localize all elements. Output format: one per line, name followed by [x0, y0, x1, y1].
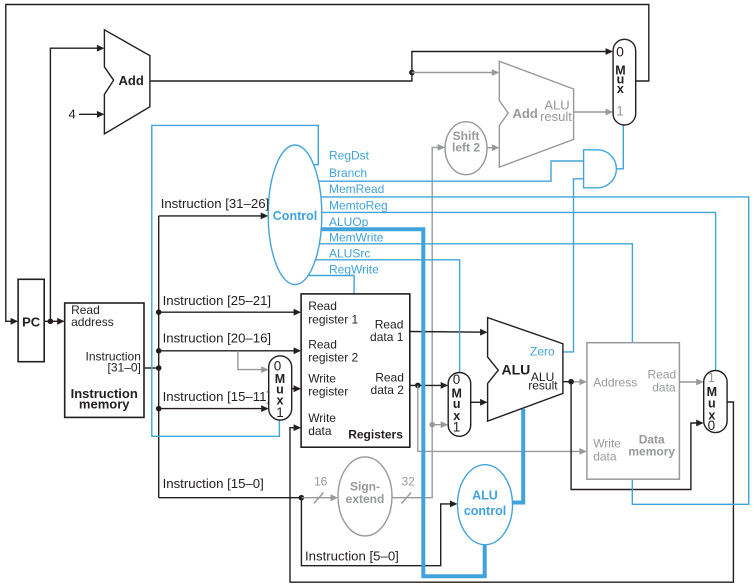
svg-text:data: data [593, 450, 617, 464]
wire Instruction [31-26] to Control [159, 213, 269, 220]
node Read data 2 junction [415, 383, 421, 389]
svg-text:Add: Add [119, 73, 144, 88]
svg-text:MemRead: MemRead [329, 182, 384, 196]
gate AND (branch) [584, 150, 617, 188]
svg-text:memory: memory [628, 445, 675, 459]
wire MemtoReg mux output write-back loop to Registers write data [290, 402, 733, 582]
wire data memory read data to MemtoReg mux input 1 (gray) [679, 379, 703, 386]
svg-text:Instruction [20–16]: Instruction [20–16] [163, 331, 272, 346]
svg-text:data: data [308, 424, 332, 438]
sign extender Sign-extend (gray) [338, 457, 392, 536]
svg-text:extend: extend [346, 492, 385, 506]
node instruction bus junction 25-21 [156, 309, 162, 315]
mux RegDst (write register select) [269, 356, 292, 420]
svg-text:1: 1 [708, 370, 716, 385]
control unit Control oval [268, 145, 322, 285]
svg-text:ALUSrc: ALUSrc [329, 247, 370, 261]
svg-text:data 2: data 2 [371, 383, 405, 397]
svg-text:Read: Read [308, 338, 337, 352]
svg-text:control: control [464, 504, 506, 518]
node PC+4 branch junction [409, 70, 415, 76]
svg-text:0: 0 [453, 372, 461, 387]
node instruction bus output junction [156, 365, 162, 371]
alu ALU main [488, 318, 563, 422]
svg-text:Zero: Zero [530, 344, 555, 358]
wire ALU result to data memory address (gray tip) [563, 379, 587, 386]
mux MemtoReg (write-back select) [704, 370, 727, 433]
svg-text:Instruction [5–0]: Instruction [5–0] [305, 549, 399, 564]
memory Instruction memory [65, 303, 144, 417]
mux ALUSrc [448, 372, 471, 436]
svg-text:Control: Control [273, 209, 317, 223]
svg-text:MemtoReg: MemtoReg [329, 199, 388, 213]
node sign-extend output branch to ALUSrc mux (gray) [429, 422, 435, 428]
wire ALUSrc mux output to ALU input 2 [471, 399, 488, 406]
wire RegDst control signal path to RegDst mux select [152, 125, 318, 436]
adder Add ALU result (branch target, gray) [499, 61, 573, 167]
svg-text:16: 16 [314, 475, 328, 489]
node ALU result junction [568, 379, 574, 385]
wire 32-bit slash mark [402, 493, 412, 504]
svg-text:MemWrite: MemWrite [329, 231, 384, 245]
wire PC to Add top input [50, 45, 104, 322]
svg-text:ALU: ALU [502, 362, 531, 378]
svg-text:Write: Write [593, 437, 621, 451]
wire instruction bus vertical [158, 216, 160, 498]
wire Read data 2 to ALUSrc mux input 0 [410, 382, 448, 389]
svg-text:Registers: Registers [348, 427, 403, 441]
wire PC+4 to branch adder top input (gray) [412, 69, 499, 76]
wire AND gate output to top mux select [616, 125, 623, 169]
svg-text:Instruction [31–26]: Instruction [31–26] [161, 196, 270, 211]
wire Instruction [25-21] to Read register 1 [159, 309, 301, 316]
register PC [18, 279, 44, 361]
wire ALUSrc control signal to ALUSrc mux select [295, 260, 460, 373]
wire ALU result down and around to MemtoReg mux input 0 [571, 382, 704, 490]
svg-text:Branch: Branch [329, 166, 367, 180]
svg-text:1: 1 [276, 405, 284, 420]
wire branch adder output to top mux input 1 [574, 109, 614, 116]
shifter Shift left 2 (gray) [445, 122, 487, 175]
svg-text:result: result [528, 378, 558, 392]
mux PCSrc (top right) [613, 39, 636, 125]
wire sign-extend output to shift left 2 and ALUSrc mux [392, 147, 443, 497]
wire constant 4 to Add bottom input [79, 111, 104, 118]
svg-text:Add: Add [513, 106, 538, 121]
registers Registers file [301, 294, 410, 447]
wire instruction memory output to instruction bus [144, 367, 159, 369]
wire MemRead control signal loop to data memory bottom [295, 197, 749, 504]
wire RegDst mux output to Write register [292, 385, 301, 392]
svg-text:Instruction [25–21]: Instruction [25–21] [163, 293, 272, 308]
wire RegWrite control signal to Registers [295, 276, 354, 294]
svg-text:data 1: data 1 [370, 330, 404, 344]
svg-text:Instruction [15–0]: Instruction [15–0] [163, 476, 264, 491]
wire Read data 1 to ALU input 1 [410, 329, 488, 336]
wire MemWrite control signal to data memory top [295, 244, 632, 343]
svg-text:left 2: left 2 [452, 141, 480, 155]
svg-text:register 2: register 2 [308, 351, 358, 365]
svg-text:register 1: register 1 [308, 312, 358, 326]
wire Zero output of ALU to AND gate [563, 179, 584, 352]
wire Instruction [15-0] to sign extend [159, 497, 302, 499]
wire Instruction [15-0] into sign-extend (gray) [301, 494, 338, 501]
wire ALUOp thick control signal to ALU control [295, 229, 485, 576]
svg-text:Write: Write [308, 411, 336, 425]
svg-text:PC: PC [22, 314, 41, 329]
svg-text:RegWrite: RegWrite [329, 263, 379, 277]
svg-text:x: x [617, 82, 624, 96]
svg-text:ALU: ALU [472, 488, 498, 502]
svg-text:Read: Read [648, 368, 677, 382]
node instruction bus junction 15-11 [156, 406, 162, 412]
svg-text:data: data [652, 381, 676, 395]
svg-text:Instruction [15–11]: Instruction [15–11] [163, 389, 271, 404]
wire PC output to instruction memory read address [44, 318, 64, 325]
wire Add output to top mux input 0 [150, 48, 613, 81]
svg-text:address: address [71, 315, 114, 329]
wire Branch control signal to AND gate [295, 161, 584, 181]
svg-text:RegDst: RegDst [329, 149, 370, 163]
svg-text:register: register [308, 384, 348, 398]
svg-text:4: 4 [69, 106, 76, 121]
wire Read data 2 gray branch to data memory write data [418, 385, 587, 454]
node instruction bus junction 20-16 [156, 348, 162, 354]
wire MemtoReg control signal to MemtoReg mux select [295, 212, 716, 370]
svg-text:Read: Read [308, 299, 337, 313]
svg-text:[31–0]: [31–0] [108, 361, 141, 375]
node PC output junction [48, 319, 54, 325]
wire Instruction [20-16] gray branch to RegDst mux input 0 [238, 351, 269, 373]
svg-text:memory: memory [79, 397, 130, 412]
svg-text:32: 32 [402, 475, 416, 489]
memory Data memory (gray) [587, 343, 680, 480]
svg-text:1: 1 [616, 104, 624, 119]
svg-text:0: 0 [708, 418, 716, 433]
wire sign-extend branch to ALUSrc mux input 1 [432, 421, 448, 428]
control unit ALU control oval [458, 465, 513, 545]
wire shift left 2 input arrowhead [438, 144, 446, 151]
wire Instruction [20-16] to Read register 2 [159, 347, 301, 354]
adder Add (PC+4) [104, 30, 149, 134]
wire 16-bit slash mark [314, 493, 324, 504]
wire shift left 2 output to branch adder [487, 144, 500, 151]
wire PC feedback loop from top mux output to PC input [6, 5, 649, 325]
svg-text:1: 1 [453, 420, 461, 435]
svg-text:0: 0 [616, 43, 624, 59]
wire Instruction [15-11] to RegDst mux input 1 [159, 405, 269, 412]
node Instruction [15-0] junction [299, 495, 305, 501]
wire Instruction [5-0] to ALU control [301, 498, 457, 566]
svg-text:ALUOp: ALUOp [329, 215, 369, 229]
wire ALU control output thick to ALU [513, 409, 524, 503]
svg-text:result: result [540, 109, 572, 124]
svg-text:Address: Address [593, 375, 637, 389]
